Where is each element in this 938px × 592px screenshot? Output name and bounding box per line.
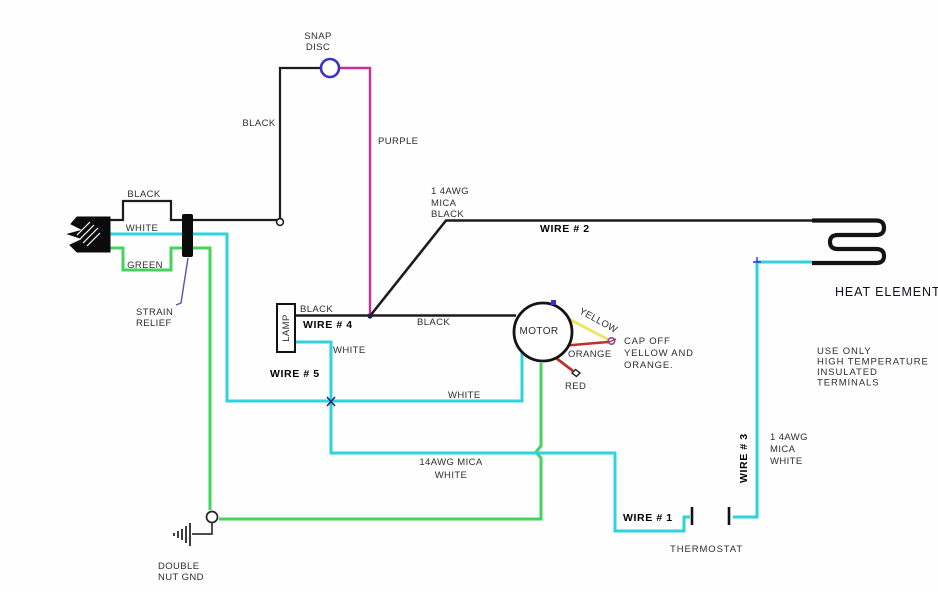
svg-text:PURPLE: PURPLE xyxy=(378,136,418,147)
svg-text:MICA: MICA xyxy=(431,198,457,209)
svg-text:LAMP: LAMP xyxy=(281,314,292,341)
svg-text:RED: RED xyxy=(565,381,586,392)
svg-text:WIRE # 1: WIRE # 1 xyxy=(623,512,673,524)
svg-text:WHITE: WHITE xyxy=(126,223,159,234)
svg-text:WHITE: WHITE xyxy=(435,470,468,481)
svg-text:ORANGE.: ORANGE. xyxy=(624,360,673,371)
svg-text:MOTOR: MOTOR xyxy=(519,326,558,337)
svg-text:ORANGE: ORANGE xyxy=(568,349,612,360)
svg-text:WIRE # 3: WIRE # 3 xyxy=(738,433,750,483)
svg-text:USE ONLY: USE ONLY xyxy=(817,346,872,357)
svg-text:MICA: MICA xyxy=(770,444,796,455)
svg-text:1 4AWG: 1 4AWG xyxy=(770,432,808,443)
svg-text:14AWG MICA: 14AWG MICA xyxy=(419,457,483,468)
svg-text:BLACK: BLACK xyxy=(242,118,275,129)
svg-text:BLACK: BLACK xyxy=(127,189,160,200)
svg-text:YELLOW AND: YELLOW AND xyxy=(624,348,694,359)
svg-text:WIRE # 4: WIRE # 4 xyxy=(303,319,353,331)
svg-text:CAP OFF: CAP OFF xyxy=(624,336,671,347)
svg-text:RELIEF: RELIEF xyxy=(136,318,172,329)
svg-text:TERMINALS: TERMINALS xyxy=(817,378,879,389)
svg-text:NUT GND: NUT GND xyxy=(158,572,204,583)
svg-text:1 4AWG: 1 4AWG xyxy=(431,186,469,197)
svg-text:WHITE: WHITE xyxy=(333,345,366,356)
svg-text:WHITE: WHITE xyxy=(770,456,803,467)
svg-text:BLACK: BLACK xyxy=(417,317,450,328)
svg-text:DISC: DISC xyxy=(306,42,330,53)
svg-text:SNAP: SNAP xyxy=(304,31,331,42)
svg-text:WIRE # 5: WIRE # 5 xyxy=(270,368,320,380)
svg-text:BLACK: BLACK xyxy=(431,209,464,220)
svg-text:STRAIN: STRAIN xyxy=(136,307,173,318)
svg-text:INSULATED: INSULATED xyxy=(817,367,878,378)
svg-text:THERMOSTAT: THERMOSTAT xyxy=(670,544,743,555)
svg-text:DOUBLE: DOUBLE xyxy=(158,561,199,572)
svg-text:BLACK: BLACK xyxy=(300,304,333,315)
svg-text:WIRE # 2: WIRE # 2 xyxy=(540,223,590,235)
svg-text:HIGH TEMPERATURE: HIGH TEMPERATURE xyxy=(817,357,929,368)
svg-text:HEAT ELEMENT: HEAT ELEMENT xyxy=(835,285,938,299)
svg-text:WHITE: WHITE xyxy=(448,390,481,401)
svg-text:GREEN: GREEN xyxy=(127,260,163,271)
